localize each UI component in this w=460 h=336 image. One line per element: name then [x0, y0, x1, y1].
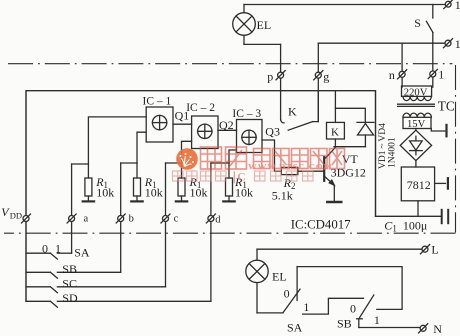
svg-text:K: K [288, 105, 297, 119]
terminal 1 (on second mains line) [445, 40, 451, 46]
svg-text:7812: 7812 [407, 178, 431, 192]
wire IC-1 lower pin to b [137, 132, 146, 163]
IC-3 (solid state relay) [237, 120, 263, 153]
wire Q3 out [262, 140, 281, 171]
switch SB (two-way, bottom) [359, 295, 374, 319]
wire g line [317, 43, 319, 121]
svg-text:a: a [84, 213, 89, 224]
terminal d [208, 216, 214, 222]
wire IC-2 lower pin to c [182, 141, 192, 163]
wire T to c-line [166, 162, 182, 164]
wire top mains line [244, 4, 445, 6]
terminal a [69, 216, 75, 222]
wire a line [71, 164, 73, 253]
power rail right side [376, 215, 441, 217]
regulator 7812 [401, 167, 434, 201]
lamp EL (top) [243, 5, 245, 13]
terminal VDD [23, 216, 29, 222]
wire T to a-line [72, 163, 89, 165]
wire Q2: IC-2 to IC-3 [218, 129, 237, 131]
relay coil K [334, 91, 336, 123]
svg-text:S: S [414, 16, 421, 30]
svg-text:SB: SB [337, 316, 352, 330]
svg-text:10k: 10k [96, 185, 114, 199]
watermark slogan (IC purchasing site) [173, 171, 314, 181]
wire T to b-line [121, 162, 137, 164]
watermark big characters 维库电子市场网 [201, 147, 345, 169]
svg-text:C1 100μ: C1 100μ [384, 219, 427, 234]
relay contact K [313, 91, 319, 122]
svg-text:SA: SA [287, 320, 303, 334]
IC-1 (solid state relay) [146, 107, 173, 142]
switch S [432, 5, 434, 19]
svg-text:1: 1 [55, 241, 61, 255]
wire diode to collector node [334, 146, 365, 148]
switch SD (left) [26, 300, 50, 302]
svg-text:1: 1 [438, 68, 444, 82]
svg-text:1N4001: 1N4001 [388, 137, 398, 168]
svg-text:0: 0 [350, 301, 356, 315]
svg-text:0: 0 [42, 241, 48, 255]
IC-2 (solid state relay) [192, 116, 218, 149]
svg-text:L: L [431, 243, 438, 257]
svg-text:10k: 10k [145, 185, 163, 199]
wire c line [165, 163, 167, 287]
svg-text:SD: SD [62, 291, 78, 305]
terminal b [118, 216, 124, 222]
resistor R1 (d) [228, 163, 230, 178]
svg-text:EL: EL [257, 18, 272, 32]
terminal N [420, 325, 426, 331]
wire lamp to L terminal [257, 248, 421, 250]
svg-text:TC: TC [438, 99, 455, 114]
svg-text:p: p [267, 70, 273, 84]
svg-text:N: N [433, 322, 442, 336]
svg-text:1: 1 [455, 37, 460, 51]
wire 7812 right with bar [435, 182, 446, 184]
svg-text:IC – 3: IC – 3 [232, 108, 261, 120]
lamp EL (bottom) [256, 249, 258, 260]
wire 1 line (to transformer) [432, 43, 434, 87]
svg-text:1: 1 [374, 313, 380, 327]
node wire to IC-1 input [88, 117, 146, 164]
svg-text:WWW.DZSC.COM: WWW.DZSC.COM [248, 161, 333, 171]
wire Q1: IC-1 to IC-2 [173, 123, 192, 125]
svg-text:IC – 2: IC – 2 [186, 102, 215, 114]
wire R2 to VT base [298, 170, 323, 172]
terminal 1 (top right, on upper mains line) [445, 1, 451, 7]
svg-text:g: g [323, 70, 329, 84]
transformer secondary bumps [403, 113, 431, 117]
wire d line [210, 163, 212, 301]
svg-text:1: 1 [455, 0, 460, 12]
resistor R1 (c) [181, 163, 183, 178]
svg-text:IC:CD4017: IC:CD4017 [291, 218, 351, 232]
svg-text:SA: SA [74, 245, 90, 259]
terminal p [278, 72, 284, 78]
terminal 1 (above transformer) [430, 71, 436, 77]
wire lamp EL to p line [244, 43, 281, 45]
wire IC-3 lower pin to d [229, 150, 237, 163]
capacitor C1 [441, 210, 443, 223]
svg-text:Q2: Q2 [219, 118, 234, 132]
svg-text:DD: DD [10, 211, 22, 221]
transformer TC primary box 220V [402, 86, 432, 96]
svg-text:0: 0 [284, 287, 290, 301]
wire S to second line [432, 33, 434, 44]
wire SB common to N [359, 327, 420, 329]
svg-text:SC: SC [62, 276, 77, 290]
terminal L [422, 246, 428, 252]
svg-text:K: K [331, 126, 339, 138]
svg-text:15V: 15V [407, 119, 426, 130]
switch SA (left) [26, 252, 50, 254]
wire 7812 output down [417, 201, 419, 217]
svg-text:Q1: Q1 [175, 109, 190, 123]
resistor R2 [281, 167, 298, 174]
boundary dash-dot lines [4, 64, 456, 234]
wire n line [401, 43, 403, 87]
svg-text:b: b [129, 214, 134, 225]
svg-text:5.1k: 5.1k [272, 189, 293, 203]
svg-text:n: n [389, 68, 395, 82]
wire lamp bottom to SA pivot [257, 312, 283, 314]
wire traveller 1: SA contact 1 to SB contact 0 [303, 298, 364, 314]
resistor R1 (a) [87, 164, 89, 178]
svg-text:220V: 220V [404, 87, 428, 98]
watermark [173, 147, 345, 184]
svg-text:10k: 10k [190, 185, 208, 199]
wire b line [120, 163, 122, 272]
wire bridge to 7812 [415, 161, 417, 167]
resistor R1 (b) [136, 163, 138, 178]
watermark logo disc [176, 148, 198, 170]
wire traveller 0: SA to SB contact 1 [297, 267, 402, 310]
switch SB (left) [26, 271, 50, 273]
svg-text:d: d [215, 215, 221, 226]
diode VD5 (flyback) [357, 121, 374, 123]
svg-text:EL: EL [272, 269, 287, 283]
transformer primary bumps [403, 96, 431, 100]
wire coil top rail [335, 108, 365, 122]
terminal n [399, 71, 405, 77]
switch SA (two-way, bottom) [283, 289, 300, 313]
switch SC (left) [26, 286, 50, 288]
controller unit box (CD4017 block) [26, 91, 376, 302]
svg-text:Q3: Q3 [265, 125, 280, 139]
svg-text:10k: 10k [235, 185, 253, 199]
wire 15V right with bar [431, 129, 445, 132]
wire p line [280, 44, 282, 119]
bridge rectifier VD1~VD4 [400, 130, 431, 160]
transformer core [398, 103, 435, 105]
svg-text:∣C: ∣C [232, 171, 246, 184]
transistor VT 3DG12 [326, 147, 336, 158]
transformer secondary box 15V [403, 117, 431, 128]
wire T to d-line [211, 162, 229, 164]
svg-text:3DG12: 3DG12 [331, 165, 366, 179]
terminal g [315, 72, 321, 78]
wire second mains line [318, 42, 444, 44]
ground (VT emitter) [327, 201, 341, 203]
terminal c [163, 216, 169, 222]
svg-text:c: c [174, 214, 179, 225]
svg-text:IC – 1: IC – 1 [143, 96, 172, 108]
svg-text:SB: SB [62, 262, 77, 276]
svg-text:1: 1 [303, 300, 309, 314]
